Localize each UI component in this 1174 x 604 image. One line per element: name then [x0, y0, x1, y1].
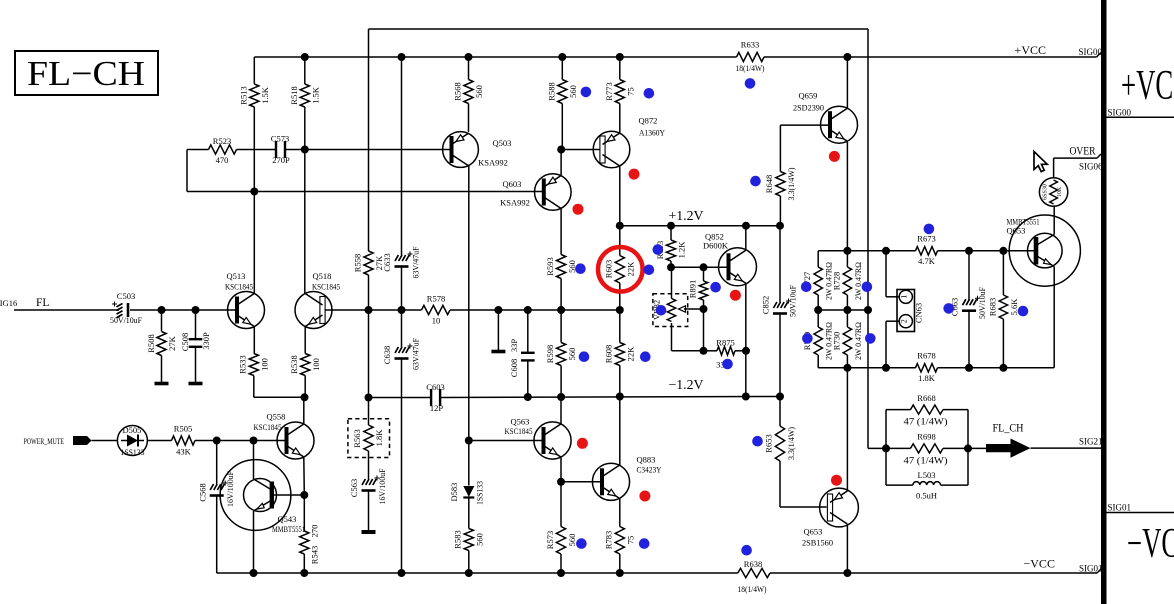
- svg-text:Q518: Q518: [313, 271, 332, 281]
- wire R533 to node: [253, 376, 255, 398]
- transistor Q563: [534, 422, 571, 459]
- svg-text:Q872: Q872: [639, 116, 658, 126]
- junction botrow-CN63pin2: [882, 364, 890, 372]
- junction R773 top: [616, 53, 624, 61]
- svg-text:R875: R875: [716, 338, 734, 348]
- svg-text:R608: R608: [604, 345, 614, 363]
- resistor R678: [916, 364, 938, 372]
- svg-text:2W 0.47RΩ: 2W 0.47RΩ: [854, 322, 863, 360]
- junction toprow-R728: [843, 247, 851, 255]
- svg-text:R568: R568: [453, 82, 463, 100]
- capacitor C568: [216, 441, 218, 485]
- svg-text:1.5K: 1.5K: [260, 86, 270, 104]
- resistor R773: [615, 80, 624, 104]
- svg-text:50V/10uF: 50V/10uF: [788, 285, 798, 317]
- svg-text:560: 560: [568, 85, 578, 98]
- svg-text:KSC1845: KSC1845: [312, 282, 340, 292]
- svg-text:3.3(1/4W): 3.3(1/4W): [786, 167, 796, 200]
- svg-text:C503: C503: [117, 291, 135, 301]
- junction midrow-R727: [814, 306, 822, 314]
- svg-text:560: 560: [567, 348, 577, 361]
- junction mid-gnd stub: [494, 306, 502, 314]
- resistor R568: [464, 80, 473, 104]
- wire Q558 emitter: [303, 457, 306, 495]
- wire Q659 collector: [846, 57, 848, 108]
- wire combo to arrow: [968, 447, 986, 449]
- svg-text:R603: R603: [604, 260, 614, 278]
- svg-text:−1.2V: −1.2V: [669, 377, 704, 392]
- svg-text:75: 75: [626, 536, 636, 545]
- resistor R728: [846, 251, 848, 267]
- svg-text:R523: R523: [213, 136, 231, 146]
- svg-text:R773: R773: [604, 82, 614, 100]
- svg-text:SIG01: SIG01: [1079, 564, 1103, 574]
- annotation red circle on R603: [598, 247, 643, 292]
- svg-text:+1.2V: +1.2V: [669, 208, 704, 223]
- capacitor C603: [430, 389, 432, 406]
- wire R588node to Q872 base: [561, 149, 600, 151]
- svg-text:18(1/4W): 18(1/4W): [738, 584, 767, 594]
- wire C573 to Q503 base: [285, 149, 452, 151]
- svg-text:50V/10uF: 50V/10uF: [977, 287, 987, 319]
- wire input FL to C503: [14, 309, 119, 311]
- diode D583: [468, 441, 470, 486]
- bus bar vertical: [1101, 0, 1107, 604]
- wire emitter bottom row: [818, 367, 886, 369]
- junction R518 top: [301, 53, 309, 61]
- junction Q558e-Q543base: [300, 491, 308, 499]
- svg-text:22K: 22K: [626, 346, 636, 362]
- transistor Q872: [593, 131, 630, 168]
- junction rail-C852: [776, 393, 784, 401]
- svg-text:47 (1/4W): 47 (1/4W): [904, 417, 948, 427]
- resistor R573: [560, 482, 562, 527]
- svg-text:Q558: Q558: [267, 412, 286, 422]
- wire C503 to Q513 base: [130, 309, 237, 311]
- transistor Q543: [220, 460, 291, 531]
- resistor R730: [846, 310, 848, 327]
- wire Q852 base row: [671, 266, 728, 268]
- svg-text:2W 0.47RΩ: 2W 0.47RΩ: [854, 262, 863, 300]
- svg-text:560: 560: [474, 85, 484, 98]
- svg-text:FL_CH: FL_CH: [993, 421, 1024, 435]
- svg-text:C3423Y: C3423Y: [637, 465, 662, 475]
- svg-text:1SS133: 1SS133: [121, 447, 145, 457]
- resistor R633: [737, 52, 765, 61]
- wire Q653m emitter: [1053, 267, 1055, 368]
- svg-text:330P: 330P: [201, 332, 211, 350]
- resistor R638: [738, 568, 770, 577]
- wire R558 node down: [368, 310, 370, 398]
- svg-text:18(1/4W): 18(1/4W): [736, 63, 765, 73]
- svg-text:R573: R573: [545, 531, 555, 549]
- svg-text:C603: C603: [426, 382, 444, 392]
- diode D505: [117, 426, 147, 456]
- junction +1.2V-Q852col: [742, 222, 750, 230]
- svg-text:75: 75: [626, 87, 636, 96]
- transistor Q653 MMBT5551: [1009, 215, 1080, 286]
- svg-text:CN63: CN63: [914, 303, 924, 323]
- svg-text:1.8K: 1.8K: [918, 373, 936, 383]
- junction R678-R683: [999, 364, 1007, 372]
- junction mid-R593: [557, 306, 565, 314]
- svg-text:1.5K: 1.5K: [311, 86, 321, 104]
- svg-text:R505: R505: [174, 424, 192, 434]
- svg-text:12P: 12P: [430, 403, 444, 413]
- wire VR82 wiper: [684, 308, 704, 310]
- resistor R583: [464, 529, 473, 551]
- junction R568 top: [465, 53, 473, 61]
- junction R673-R683: [999, 247, 1007, 255]
- svg-text:SIG00: SIG00: [1079, 47, 1103, 57]
- svg-text:Q543: Q543: [278, 514, 297, 524]
- svg-text:R683: R683: [988, 298, 998, 316]
- svg-text:43K: 43K: [176, 447, 192, 457]
- transistor Q518: [295, 292, 332, 329]
- ground C563: [362, 530, 376, 534]
- junction input-R508: [158, 306, 166, 314]
- svg-text:POWER_MUTE: POWER_MUTE: [24, 436, 65, 446]
- ground C508: [195, 347, 197, 384]
- svg-text:R783: R783: [604, 531, 614, 549]
- wire Q852 emitter: [745, 283, 747, 396]
- capacitor C573: [237, 149, 277, 151]
- wire feedback to Q603 base: [254, 191, 544, 193]
- junction rail-R583: [465, 569, 473, 577]
- wire C633 to midwire: [401, 267, 403, 311]
- junction R875-Q852emitter: [742, 347, 750, 355]
- svg-text:FL−CH: FL−CH: [27, 54, 145, 93]
- wire Q653m collector: [1053, 206, 1055, 235]
- resistor R588: [558, 80, 567, 104]
- resistor R578: [422, 305, 451, 314]
- svg-text:Q883: Q883: [637, 455, 656, 465]
- transistor Q503: [443, 132, 479, 168]
- svg-text:R513: R513: [239, 86, 249, 104]
- wire Q883 emitter: [619, 498, 621, 526]
- junction R613-VR82: [667, 263, 675, 271]
- svg-text:R598: R598: [545, 345, 555, 363]
- title box FL-CH: [15, 51, 158, 95]
- wire Q563 collector: [560, 397, 562, 424]
- thermistor TH 6SS3 10K: [1039, 178, 1067, 206]
- svg-text:1SS133: 1SS133: [475, 481, 485, 505]
- transistor Q883: [592, 463, 629, 500]
- svg-text:C568: C568: [198, 483, 208, 501]
- wire Q563e to Q883 base: [561, 481, 602, 483]
- junction wiper-R891: [700, 305, 708, 313]
- svg-text:R648: R648: [764, 175, 774, 193]
- capacitor C563: [362, 479, 365, 485]
- junction botrow-R730: [843, 364, 851, 372]
- junction rail-R608: [616, 393, 624, 401]
- transistor Q558: [277, 422, 314, 459]
- wire -VCC bottom rail: [217, 572, 738, 574]
- svg-text:D505: D505: [123, 425, 142, 435]
- junction feedback-Q513col: [250, 188, 258, 196]
- wire output column: [867, 29, 869, 448]
- svg-text:270: 270: [310, 525, 320, 538]
- resistor R673: [916, 247, 938, 255]
- svg-text:R558: R558: [353, 254, 363, 272]
- inductor L503: [886, 484, 913, 486]
- svg-text:SIG01: SIG01: [1108, 503, 1132, 513]
- junction rail-C638: [398, 569, 406, 577]
- svg-text:KSC1845: KSC1845: [505, 426, 533, 436]
- transistor Q513: [228, 292, 265, 329]
- wire R523 left leg: [186, 150, 188, 192]
- svg-text:4.7K: 4.7K: [918, 256, 936, 266]
- junction R603-midwire: [616, 306, 624, 314]
- wire Q543 collector up: [253, 441, 255, 480]
- svg-text:1.2K: 1.2K: [677, 241, 687, 259]
- svg-text:FL: FL: [36, 297, 49, 309]
- svg-text:C573: C573: [271, 134, 289, 144]
- svg-text:KSA992: KSA992: [478, 158, 508, 168]
- svg-text:−VCC: −VCC: [1024, 557, 1055, 571]
- wire Q653b collector down: [846, 524, 848, 573]
- junction combo left: [882, 444, 890, 452]
- svg-text:R673: R673: [917, 234, 935, 244]
- junction emitter node Q513/Q518: [301, 393, 309, 401]
- junction Q563e-R573: [557, 478, 565, 486]
- svg-text:KSA992: KSA992: [500, 198, 530, 208]
- svg-text:2: 2: [899, 319, 908, 323]
- svg-text:R518: R518: [289, 86, 299, 104]
- wire Q659 base: [780, 124, 829, 126]
- junction C638 top: [398, 306, 406, 314]
- svg-text:−VCC: −VCC: [1127, 521, 1174, 567]
- wire Q653b emitter up: [846, 368, 848, 492]
- wire Q503 collector down: [468, 166, 470, 441]
- svg-text:Q659: Q659: [799, 91, 818, 101]
- svg-text:3.3(1/4W): 3.3(1/4W): [786, 427, 796, 460]
- svg-text:SIG06: SIG06: [1079, 162, 1103, 172]
- wire tag to D505: [92, 440, 118, 442]
- svg-text:R653: R653: [764, 434, 774, 452]
- resistor R613: [670, 226, 672, 240]
- svg-text:10: 10: [432, 316, 441, 326]
- svg-text:+VCC: +VCC: [1121, 63, 1174, 109]
- svg-text:Q513: Q513: [227, 271, 246, 281]
- wire Q872 collector down: [619, 166, 621, 226]
- wire output mid row: [818, 309, 868, 311]
- junction rail-R543: [300, 569, 308, 577]
- svg-text:D600K: D600K: [703, 241, 729, 251]
- svg-text:R633: R633: [741, 40, 759, 50]
- resistor R603: [619, 226, 621, 256]
- svg-text:R533: R533: [238, 355, 248, 373]
- svg-text:R583: R583: [453, 530, 463, 548]
- svg-text:L503: L503: [918, 470, 936, 480]
- ground R508: [161, 356, 163, 384]
- svg-text:6SS30: 6SS30: [1043, 184, 1049, 200]
- svg-text:R588: R588: [547, 82, 557, 100]
- resistor R543: [300, 531, 309, 554]
- junction +1.2V-Q872: [616, 222, 624, 230]
- junction rail-C608: [524, 393, 532, 401]
- svg-text:47 (1/4W): 47 (1/4W): [904, 456, 948, 466]
- junction rail-R563: [365, 394, 373, 402]
- svg-text:OVER: OVER: [1070, 144, 1096, 158]
- svg-text:D583: D583: [449, 483, 459, 502]
- resistor R523: [187, 149, 209, 151]
- junction rail-R598: [557, 393, 565, 401]
- resistor R891: [703, 267, 705, 281]
- svg-text:16V/100uF: 16V/100uF: [377, 468, 387, 504]
- wire Q513 emitter: [253, 327, 255, 354]
- junction C633 top: [398, 53, 406, 61]
- wire Q659 emitter: [846, 141, 848, 251]
- junction midrow-R728: [843, 306, 851, 314]
- svg-text:63V/47uF: 63V/47uF: [411, 338, 421, 370]
- junction R518-C573: [301, 146, 309, 154]
- svg-text:Q653: Q653: [1007, 226, 1026, 236]
- junction R891 bottom: [700, 347, 708, 355]
- svg-text:R543: R543: [310, 546, 320, 564]
- capacitor C638: [401, 310, 403, 347]
- svg-text:16V/100uF: 16V/100uF: [225, 471, 235, 507]
- wire Q603 emitter up: [560, 150, 562, 176]
- capacitor C508: [195, 310, 197, 339]
- svg-text:22K: 22K: [626, 261, 636, 277]
- svg-text:1.8K: 1.8K: [374, 429, 384, 447]
- svg-text:C852: C852: [761, 296, 771, 314]
- svg-text:C608: C608: [509, 359, 519, 377]
- wire Q543 base: [272, 494, 305, 496]
- junction R891 top: [700, 263, 708, 271]
- transistor Q603: [535, 174, 572, 211]
- svg-text:2SD2390: 2SD2390: [793, 103, 824, 113]
- svg-text:Q503: Q503: [493, 138, 512, 148]
- svg-text:Q563: Q563: [511, 417, 530, 427]
- junction R673-C663: [965, 247, 973, 255]
- wire Q883 collector: [619, 397, 621, 466]
- mouse cursor: [1034, 152, 1047, 172]
- svg-text:50V/10uF: 50V/10uF: [110, 315, 142, 325]
- junction input-C508: [192, 306, 200, 314]
- svg-text:SIG00: SIG00: [1108, 108, 1132, 118]
- svg-text:R678: R678: [917, 351, 935, 361]
- junction rail-Q543: [250, 569, 258, 577]
- junction Q659col-VCC: [843, 53, 851, 61]
- svg-text:R638: R638: [744, 559, 762, 569]
- resistor R508: [161, 310, 163, 332]
- wire +VCC rail y57: [254, 56, 736, 58]
- wire CN63 pin1: [886, 296, 899, 298]
- svg-text:R668: R668: [917, 393, 935, 403]
- svg-text:C633: C633: [382, 253, 392, 271]
- svg-text:0.5uH: 0.5uH: [916, 491, 937, 501]
- junction R588 top: [558, 53, 566, 61]
- svg-text:5.6K: 5.6K: [1009, 298, 1019, 316]
- wire OVER: [1053, 158, 1055, 178]
- svg-text:R728: R728: [832, 272, 842, 290]
- svg-text:KSC1845: KSC1845: [254, 422, 282, 432]
- junction +1.2V-R613: [667, 222, 675, 230]
- svg-text:27K: 27K: [167, 335, 177, 351]
- resistor R518: [304, 57, 306, 84]
- capacitor C503: [117, 304, 123, 307]
- input tag POWER_MUTE: [73, 436, 92, 445]
- capacitor C663: [968, 251, 970, 300]
- wire Q563 base: [469, 440, 544, 442]
- svg-text:10K: 10K: [1057, 186, 1063, 197]
- svg-text:C563: C563: [349, 479, 359, 497]
- wire Q513 collector: [253, 192, 255, 294]
- resistor R538: [304, 327, 306, 354]
- junction rail-Q852e: [742, 393, 750, 401]
- svg-text:33P: 33P: [509, 339, 519, 353]
- junction mute-Q543: [250, 437, 258, 445]
- svg-text:R563: R563: [352, 429, 362, 447]
- svg-text:560: 560: [567, 260, 577, 273]
- junction +1.2V-R648: [776, 222, 784, 230]
- wire arrow to bus: [1031, 447, 1103, 449]
- transistor Q659: [821, 106, 858, 143]
- svg-text:100: 100: [311, 358, 321, 371]
- resistor R593: [557, 255, 566, 279]
- svg-text:R891: R891: [688, 280, 698, 298]
- junction combo right: [964, 444, 972, 452]
- ground stub mid: [497, 310, 499, 352]
- wire feedback top y29: [369, 28, 869, 30]
- wire CN63 pin2: [886, 320, 899, 322]
- junction rail-R783: [616, 569, 624, 577]
- output arrow FL_CH: [986, 439, 1031, 458]
- wire Q653m base: [1003, 250, 1036, 252]
- svg-text:C638: C638: [382, 346, 392, 364]
- svg-text:Q653: Q653: [804, 527, 823, 537]
- resistor R875: [704, 350, 718, 352]
- transistor Q653 2SB1560: [820, 488, 859, 527]
- svg-text:C508: C508: [180, 333, 190, 351]
- resistor R513: [253, 57, 255, 84]
- capacitor C852: [779, 226, 781, 302]
- svg-text:R698: R698: [917, 432, 935, 442]
- junction toprow-CN63pin1: [882, 247, 890, 255]
- svg-text:R593: R593: [545, 257, 555, 275]
- capacitor C608: [527, 310, 529, 353]
- wire Q558 collector: [303, 397, 305, 424]
- resistor R563 dashed: [348, 419, 390, 458]
- wire combo left rail: [885, 410, 887, 486]
- resistor R533: [249, 354, 258, 376]
- wire emitter top row: [818, 250, 886, 252]
- svg-text:R730: R730: [832, 332, 842, 350]
- junction Q503col-Q563base: [465, 437, 473, 445]
- resistor R598: [557, 343, 566, 366]
- svg-text:SIG16: SIG16: [0, 298, 17, 308]
- resistor R727: [817, 251, 819, 267]
- junction mid-C608: [524, 306, 532, 314]
- svg-text:470: 470: [216, 155, 229, 165]
- svg-text:560: 560: [475, 533, 485, 546]
- junction midrow-output: [864, 306, 872, 314]
- resistor R648: [776, 172, 785, 197]
- wire Q603 collector down: [560, 209, 562, 255]
- svg-text:R578: R578: [427, 294, 445, 304]
- capacitor C633: [401, 57, 403, 255]
- resistor R729: [817, 310, 819, 327]
- connector CN63: [897, 290, 915, 332]
- transistor Q852: [719, 248, 757, 286]
- wire Q563 emitter: [560, 457, 562, 482]
- svg-text:SIG21: SIG21: [1079, 437, 1103, 447]
- potentiometer VR82: [671, 267, 673, 298]
- wire Q543 emitter down: [253, 511, 255, 573]
- junction R588-Q872base: [557, 146, 565, 154]
